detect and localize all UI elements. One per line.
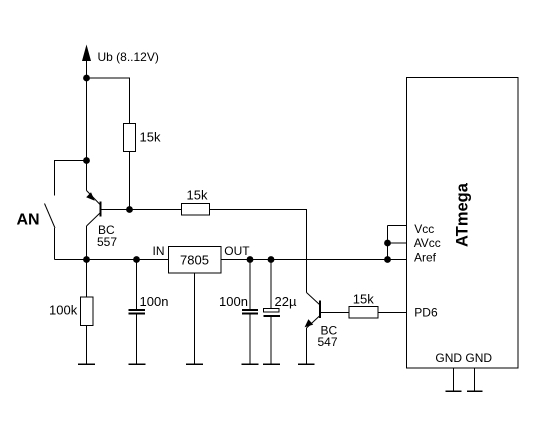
svg-text:AN: AN — [17, 212, 40, 229]
svg-text:OUT: OUT — [224, 244, 250, 258]
svg-text:7805: 7805 — [180, 253, 209, 268]
transistor Q2 BC547 collector diagonal — [307, 293, 321, 306]
wire: U1 GND pin down — [194, 273, 196, 364]
wire: Ub dot to R1 top — [87, 78, 130, 124]
IC U2 ATmega body — [407, 78, 519, 369]
node: switch branch junction — [83, 157, 90, 164]
wire: R1 bottom to base node — [129, 152, 131, 210]
wire: 5V rail right (7805 OUT to Aref) — [221, 259, 407, 261]
wire: GND pin 2 — [474, 368, 476, 391]
wire: Q2 emitter to ground — [306, 328, 308, 364]
transistor Q2 BC547 emitter diagonal — [307, 316, 321, 329]
svg-text:100n: 100n — [140, 294, 169, 309]
svg-text:Aref: Aref — [414, 251, 437, 265]
wire: R3 to PD6 pin — [378, 312, 407, 314]
node: Ub junction — [83, 75, 90, 82]
ground (C3) — [263, 363, 280, 365]
resistor 15k R3 (PD6 series) — [349, 307, 378, 319]
node: rail/Q1 collector — [83, 256, 90, 263]
wire: Vcc branch vertical — [387, 226, 389, 260]
resistor 15k R1 (vertical pull-up) — [124, 124, 136, 152]
node: rail/Vcc branch — [384, 256, 391, 263]
wire: Q2 base to R3 — [320, 312, 349, 314]
svg-text:AVcc: AVcc — [414, 236, 441, 250]
svg-text:100n: 100n — [219, 294, 248, 309]
svg-text:557: 557 — [97, 235, 117, 249]
svg-text:ATmega: ATmega — [453, 182, 471, 247]
svg-text:15k: 15k — [353, 291, 374, 306]
svg-text:15k: 15k — [140, 130, 161, 145]
regulator U1 7805 — [169, 247, 222, 274]
transistor Q1 BC557 emitter arrow — [86, 192, 95, 201]
wire: AVcc pin — [388, 242, 407, 244]
svg-text:Vcc: Vcc — [414, 222, 434, 236]
ground (GND pin 2) — [467, 390, 483, 392]
resistor 15k R2 (horizontal, base feed) — [182, 204, 210, 216]
switch AN arm — [45, 204, 56, 229]
svg-text:22µ: 22µ — [275, 294, 297, 309]
capacitor C3 22u electrolytic — [264, 260, 281, 365]
ground (C1) — [129, 363, 146, 365]
svg-text:GND GND: GND GND — [435, 351, 492, 365]
ground (C2) — [242, 363, 259, 365]
wire: switch bottom to rail — [54, 228, 56, 260]
label BC 557 — [97, 223, 117, 249]
wire: 5V rail left (switch to 7805 IN) — [55, 259, 169, 261]
svg-text:547: 547 — [318, 335, 338, 349]
label BC 547 — [318, 324, 338, 350]
wire: GND pin 1 — [453, 368, 455, 391]
power symbol Ub — [82, 45, 91, 79]
wire: Q1 collector down to ground rail — [86, 226, 88, 260]
ground (100k) — [78, 363, 95, 365]
ground (U1) — [186, 363, 203, 365]
transistor Q1 BC557 emitter lead — [86, 161, 88, 191]
wire: Q1 base to node — [101, 209, 182, 211]
capacitor C1 100n — [129, 260, 146, 365]
svg-text:15k: 15k — [187, 187, 208, 202]
transistor Q1 BC557 collector diagonal — [87, 213, 101, 227]
node: rail/C3 — [268, 256, 275, 263]
wire: R2 right to Q2 collector — [210, 210, 307, 293]
transistor Q2 BC547 base bar — [319, 301, 321, 319]
svg-text:Ub (8..12V): Ub (8..12V) — [98, 50, 159, 64]
svg-text:100k: 100k — [49, 303, 78, 318]
node: base junction — [126, 206, 133, 213]
node: rail/C2 — [247, 256, 254, 263]
wire: Ub rail down to switch branch — [86, 78, 88, 161]
svg-text:PD6: PD6 — [414, 306, 438, 320]
resistor 100k — [81, 260, 94, 365]
ground (Q2 emitter) — [298, 363, 315, 365]
ground (GND pin 1) — [446, 390, 462, 392]
capacitor C2 100n — [242, 260, 258, 365]
wire: branch to switch top — [55, 161, 87, 196]
transistor Q1 BC557 base bar — [100, 202, 102, 217]
node: rail/C1 — [133, 256, 140, 263]
svg-text:IN: IN — [153, 244, 165, 258]
transistor Q1 BC557 emitter diagonal — [87, 191, 101, 206]
wire: Vcc pin — [388, 225, 407, 227]
transistor Q2 BC547 emitter arrow — [305, 319, 314, 327]
node: AVcc junction — [384, 240, 391, 247]
